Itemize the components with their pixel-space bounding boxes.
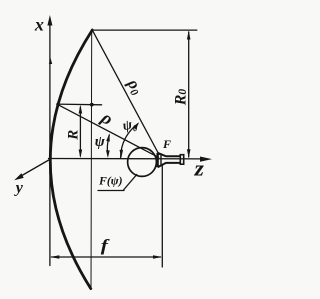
y axis arrowhead (14, 173, 24, 180)
x axis (49, 24, 51, 266)
svg-text:F: F (162, 137, 171, 151)
f right extension line under focus (161, 166, 163, 267)
ray rho0 (92, 30, 159, 154)
psi angle arc (107, 135, 109, 156)
aperture plane line (rim vertical) (90, 30, 93, 289)
horn bottom wall (158, 163, 181, 167)
y axis (21, 159, 51, 176)
R0 dimension arrow down (187, 149, 191, 158)
horn top wall (158, 153, 181, 157)
svg-text:x: x (34, 14, 44, 34)
horn mouth face (156, 153, 158, 167)
svg-text:ψ: ψ (95, 134, 106, 150)
R dimension arrow up (79, 105, 83, 114)
ink blot arrowhead on x axis (49, 58, 52, 65)
leader line from F(psi) label (124, 175, 137, 191)
x axis arrowhead (47, 15, 52, 26)
parabola reflector (50, 30, 92, 289)
top extension line from rim (92, 29, 197, 31)
svg-text:R: R (65, 130, 81, 141)
R dimension line (79, 107, 81, 156)
reflected ray horizontal (57, 103, 102, 106)
svg-text:F(ψ): F(ψ) (98, 174, 123, 188)
z axis (49, 158, 204, 160)
R dimension arrow down (79, 150, 83, 159)
z axis arrowhead (200, 157, 212, 162)
psi arc arrow lower (106, 150, 110, 158)
svg-text:y: y (14, 179, 24, 196)
psi arc arrow upper (106, 133, 110, 141)
R0 dimension arrow up (187, 31, 191, 40)
svg-text:z: z (194, 156, 204, 180)
feed pattern circle F(psi) (128, 148, 157, 177)
horn inner aperture line (160, 155, 162, 165)
waveguide flange (180, 155, 183, 165)
node dot on aperture line (90, 103, 94, 107)
psi0 angle arc (121, 124, 138, 158)
f dimension arrow right (153, 255, 162, 259)
R0 dimension line (188, 32, 190, 157)
psi0 arc arrow upper (133, 122, 139, 130)
feed horn at focus (158, 153, 184, 167)
f dimension line (52, 256, 161, 258)
psi0 arc arrow lower (120, 150, 124, 158)
f dimension arrow left (50, 255, 59, 259)
F(psi) label underline (98, 190, 124, 192)
ray rho (57, 104, 159, 157)
